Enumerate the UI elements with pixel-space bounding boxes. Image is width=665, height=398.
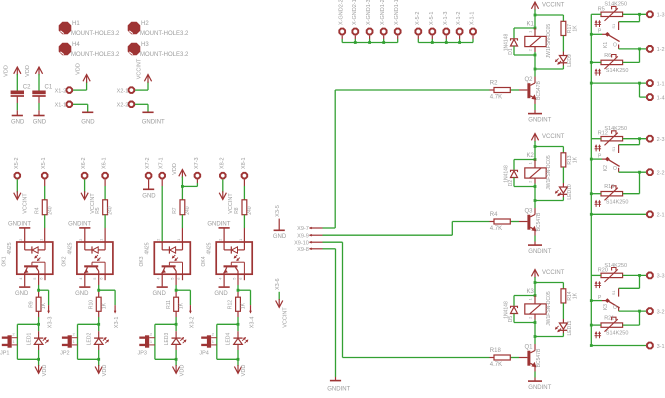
svg-text:LED9: LED9 <box>567 54 573 67</box>
svg-text:GNDINT: GNDINT <box>327 387 350 393</box>
svg-text:OK3: OK3 <box>139 256 145 266</box>
svg-text:GNDINT: GNDINT <box>528 118 551 124</box>
svg-text:LED1: LED1 <box>26 333 32 346</box>
svg-text:4.7K: 4.7K <box>490 95 502 101</box>
svg-text:H1: H1 <box>72 21 80 27</box>
svg-text:C1: C1 <box>45 84 53 90</box>
svg-text:S14K250: S14K250 <box>606 199 629 205</box>
svg-text:R20: R20 <box>598 267 608 273</box>
svg-text:K2: K2 <box>527 153 535 159</box>
svg-text:X-GND1-2: X-GND1-2 <box>380 0 386 25</box>
svg-text:X9-10: X9-10 <box>294 240 309 246</box>
svg-text:LED3: LED3 <box>164 333 170 346</box>
svg-text:S1: S1 <box>611 23 616 29</box>
svg-text:BC547B: BC547B <box>536 212 542 231</box>
svg-text:JW1FSN-DC05: JW1FSN-DC05 <box>546 24 552 59</box>
svg-text:R4: R4 <box>490 212 498 218</box>
svg-text:D2: D2 <box>508 180 514 187</box>
svg-text:D5: D5 <box>508 316 514 323</box>
svg-text:X9-8: X9-8 <box>297 247 309 253</box>
svg-text:R12: R12 <box>228 300 234 309</box>
svg-text:C2: C2 <box>23 84 31 90</box>
svg-text:X-5-2: X-5-2 <box>415 12 421 25</box>
svg-text:X7-2: X7-2 <box>145 157 151 169</box>
svg-text:Q2: Q2 <box>525 77 534 83</box>
svg-text:R5: R5 <box>598 6 605 12</box>
svg-text:3-3: 3-3 <box>657 274 665 280</box>
svg-text:S14K250: S14K250 <box>604 2 627 8</box>
svg-text:Q1: Q1 <box>525 345 534 351</box>
svg-text:R19: R19 <box>604 184 614 190</box>
svg-text:LED11: LED11 <box>567 320 573 335</box>
svg-text:D1: D1 <box>508 48 514 55</box>
svg-text:X7-3: X7-3 <box>194 157 200 169</box>
svg-text:VCCINT: VCCINT <box>542 3 565 9</box>
svg-text:VDD: VDD <box>76 63 82 75</box>
svg-text:X3-1: X3-1 <box>114 317 120 329</box>
svg-text:VDD: VDD <box>172 163 178 175</box>
svg-text:X5-2: X5-2 <box>14 157 20 169</box>
svg-text:R21: R21 <box>604 316 614 322</box>
svg-text:1K: 1K <box>573 156 579 163</box>
svg-text:K3: K3 <box>603 304 609 310</box>
svg-text:X2-2: X2-2 <box>117 103 129 109</box>
svg-text:JW1FSN-DC05: JW1FSN-DC05 <box>546 155 552 190</box>
svg-text:1K: 1K <box>573 292 579 299</box>
svg-text:4N25: 4N25 <box>67 242 73 254</box>
svg-text:O: O <box>613 305 617 311</box>
svg-text:X3-4: X3-4 <box>249 317 255 329</box>
svg-text:GND: GND <box>214 291 228 297</box>
svg-text:X-1-2: X-1-2 <box>456 12 462 25</box>
svg-text:X-GND2-1: X-GND2-1 <box>352 0 358 25</box>
svg-text:240: 240 <box>108 206 114 215</box>
svg-text:VDD: VDD <box>179 365 185 377</box>
svg-text:X3-3: X3-3 <box>48 317 54 329</box>
svg-text:X-5-1: X-5-1 <box>429 12 435 25</box>
svg-text:3-1: 3-1 <box>657 344 665 350</box>
svg-text:S14K250: S14K250 <box>606 331 629 337</box>
svg-text:OK4: OK4 <box>201 256 207 266</box>
svg-text:R7: R7 <box>172 207 178 214</box>
svg-text:1K: 1K <box>573 25 579 32</box>
svg-text:R8: R8 <box>234 207 240 214</box>
svg-text:JP2: JP2 <box>60 351 69 357</box>
svg-text:K3: K3 <box>527 289 535 295</box>
svg-text:X1-1: X1-1 <box>55 103 67 109</box>
svg-text:H4: H4 <box>72 42 80 48</box>
svg-text:1K: 1K <box>241 302 247 309</box>
svg-text:VDD: VDD <box>42 365 48 377</box>
svg-text:R6: R6 <box>604 53 611 59</box>
svg-text:1-2: 1-2 <box>657 47 665 53</box>
svg-text:VDD: VDD <box>4 65 10 77</box>
svg-text:GND: GND <box>153 291 167 297</box>
svg-text:240: 240 <box>47 206 53 215</box>
svg-text:X3-5: X3-5 <box>275 205 281 217</box>
svg-text:X8-2: X8-2 <box>219 157 225 169</box>
svg-text:X7-1: X7-1 <box>159 157 165 169</box>
svg-text:MOUNT-HOLE3.2: MOUNT-HOLE3.2 <box>71 31 120 37</box>
svg-text:GNDINT: GNDINT <box>207 222 230 228</box>
svg-text:X6-1: X6-1 <box>102 157 108 169</box>
svg-text:GNDINT: GNDINT <box>528 249 551 255</box>
svg-text:H3: H3 <box>141 42 149 48</box>
svg-text:X6-2: X6-2 <box>81 157 87 169</box>
svg-text:4.7K: 4.7K <box>490 226 502 232</box>
svg-text:BC547B: BC547B <box>536 81 542 100</box>
svg-text:2-1: 2-1 <box>657 213 665 219</box>
svg-text:X9-9: X9-9 <box>297 233 309 239</box>
svg-text:JP1: JP1 <box>0 351 9 357</box>
svg-text:LED2: LED2 <box>86 333 92 346</box>
svg-text:GND: GND <box>142 194 156 200</box>
svg-text:JP4: JP4 <box>199 351 208 357</box>
svg-text:MOUNT-HOLE3.2: MOUNT-HOLE3.2 <box>140 31 189 37</box>
svg-text:X1-2: X1-2 <box>55 88 67 94</box>
svg-text:VCCINT: VCCINT <box>283 307 289 328</box>
svg-text:4N25: 4N25 <box>145 242 151 254</box>
svg-text:GND: GND <box>75 291 89 297</box>
svg-text:S14K250: S14K250 <box>606 68 629 74</box>
svg-text:X-1-3: X-1-3 <box>443 12 449 25</box>
svg-text:1-1: 1-1 <box>657 81 665 87</box>
svg-text:1K: 1K <box>41 302 47 309</box>
svg-text:R4: R4 <box>34 207 40 214</box>
svg-text:VDD: VDD <box>102 365 108 377</box>
svg-text:R10: R10 <box>88 300 94 309</box>
svg-text:LED4: LED4 <box>226 333 232 346</box>
svg-text:BC547B: BC547B <box>536 348 542 367</box>
svg-text:R18: R18 <box>490 348 502 354</box>
svg-text:1-4: 1-4 <box>657 95 665 101</box>
svg-text:1K: 1K <box>179 302 185 309</box>
svg-text:4.7K: 4.7K <box>490 362 502 368</box>
svg-text:X3-6: X3-6 <box>275 278 281 290</box>
svg-text:GNDINT: GNDINT <box>68 222 91 228</box>
svg-text:GND: GND <box>81 120 95 126</box>
svg-text:GNDINT: GNDINT <box>142 120 165 126</box>
svg-text:GND: GND <box>15 291 29 297</box>
svg-text:4N25: 4N25 <box>7 242 13 254</box>
svg-text:VCCINT: VCCINT <box>542 134 565 140</box>
svg-text:S1: S1 <box>611 290 616 296</box>
svg-text:H2: H2 <box>141 21 149 27</box>
svg-text:1-3: 1-3 <box>657 13 665 19</box>
svg-text:Q3: Q3 <box>525 209 534 215</box>
svg-text:R11: R11 <box>166 300 172 309</box>
svg-text:K1: K1 <box>603 42 609 48</box>
svg-text:240: 240 <box>247 206 253 215</box>
svg-text:OK2: OK2 <box>62 256 68 266</box>
svg-text:MOUNT-HOLE3.2: MOUNT-HOLE3.2 <box>140 52 189 58</box>
svg-text:R9: R9 <box>28 301 34 308</box>
svg-text:K1: K1 <box>527 22 535 28</box>
svg-text:O: O <box>613 166 617 172</box>
svg-text:JW1FSN-DC05: JW1FSN-DC05 <box>546 291 552 326</box>
svg-text:GNDINT: GNDINT <box>8 222 31 228</box>
svg-text:R12: R12 <box>598 131 608 137</box>
svg-text:K2: K2 <box>603 165 609 171</box>
svg-text:4N25: 4N25 <box>207 242 213 254</box>
svg-text:X9-7: X9-7 <box>297 226 309 232</box>
svg-text:LED10: LED10 <box>567 184 573 200</box>
svg-text:X3-2: X3-2 <box>189 317 195 329</box>
svg-text:3-2: 3-2 <box>657 309 665 315</box>
svg-text:X5-1: X5-1 <box>41 157 47 169</box>
svg-text:VDD: VDD <box>25 65 31 77</box>
svg-text:240: 240 <box>185 206 191 215</box>
svg-text:GND: GND <box>33 120 47 126</box>
svg-text:X-1-1: X-1-1 <box>470 12 476 25</box>
svg-text:R2: R2 <box>490 81 498 87</box>
svg-text:O: O <box>613 43 617 49</box>
svg-text:S1: S1 <box>611 146 616 152</box>
svg-text:2-2: 2-2 <box>657 171 665 177</box>
svg-text:VCCINT: VCCINT <box>542 270 565 276</box>
svg-text:GND: GND <box>273 234 287 240</box>
svg-text:X-GND1-1: X-GND1-1 <box>394 0 400 25</box>
svg-text:R5: R5 <box>95 207 101 214</box>
svg-text:VDD: VDD <box>241 365 247 377</box>
svg-text:OK1: OK1 <box>2 256 8 266</box>
svg-text:2-3: 2-3 <box>657 137 665 143</box>
svg-text:JP3: JP3 <box>138 351 147 357</box>
svg-text:X2-1: X2-1 <box>117 88 129 94</box>
svg-text:GNDINT: GNDINT <box>528 385 551 391</box>
svg-text:1K: 1K <box>101 302 107 309</box>
svg-text:X8-1: X8-1 <box>241 157 247 169</box>
svg-text:X-GND2-2: X-GND2-2 <box>339 0 345 25</box>
svg-text:VCCINT: VCCINT <box>23 193 29 214</box>
svg-text:GND: GND <box>11 120 25 126</box>
svg-text:VCCINT: VCCINT <box>137 58 143 79</box>
svg-text:MOUNT-HOLE3.2: MOUNT-HOLE3.2 <box>71 52 120 58</box>
svg-text:X-GND1-3: X-GND1-3 <box>366 0 372 25</box>
